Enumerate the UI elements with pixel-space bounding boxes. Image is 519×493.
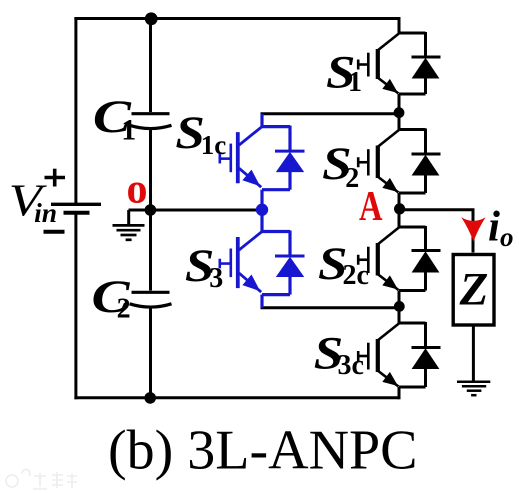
svg-text:1: 1 [121, 113, 136, 146]
wire: right leg segment below (y=193-208.8) [398, 193, 401, 209]
IGBT gate lead [358, 161, 368, 164]
wire: diode branch upper [288, 231, 291, 257]
svg-text:o: o [500, 222, 514, 252]
IGBT collector diagonal [239, 232, 262, 251]
wire: diode branch lower [424, 175, 427, 194]
wire: emitter bottom branch from diode [399, 192, 426, 195]
IGBT gate bar [367, 53, 370, 77]
diode cathode bar [412, 249, 441, 252]
wire: S1c collector to right leg (between S1 and S2) [261, 112, 400, 115]
IGBT collector diagonal [239, 127, 262, 146]
wire: diode branch upper [424, 226, 427, 251]
IGBT gate lead [358, 258, 368, 261]
svg-text:3: 3 [209, 263, 223, 294]
wire: mid leg top (rail to C1) [149, 19, 152, 113]
wire: collector vertical [260, 210, 263, 232]
svg-text:A: A [359, 184, 383, 230]
IGBT body bar [236, 237, 240, 288]
IGBT gate bar [367, 149, 370, 175]
diode cathode bar [275, 255, 305, 258]
wire: diode branch upper [424, 32, 427, 57]
wire: S3 emitter to right leg (between S2c and S3c) [261, 306, 400, 309]
wire: neutral rail o to blue leg [129, 209, 263, 212]
IGBT gate lead [220, 262, 230, 265]
IGBT emitter arrow [382, 275, 398, 289]
wire: mid leg node o to C2 [149, 210, 152, 291]
svg-text:i: i [488, 204, 500, 251]
svg-text:1c: 1c [201, 130, 227, 160]
IGBT body bar [236, 132, 240, 183]
load Z (box) [453, 255, 494, 326]
IGBT emitter diagonal [239, 168, 261, 187]
IGBT emitter diagonal [239, 273, 261, 292]
label io [488, 204, 514, 253]
transistor S1c (blue IGBT with antiparallel diode) [220, 114, 305, 210]
wire: collector top branch to diode [399, 226, 426, 229]
wire: right leg segment above (y=208.8-227) [398, 209, 401, 227]
wire: mid leg C2 to bottom rail [149, 307, 152, 399]
wire: collector vertical [260, 114, 263, 127]
wire: emitter bottom branch [262, 293, 290, 296]
wire: load Z to ground [472, 325, 475, 381]
IGBT gate bar [230, 144, 233, 173]
wire: right leg segment above (y=306.3-323) [398, 306, 401, 323]
wire: top branch to diode [262, 125, 290, 128]
diode triangle [412, 251, 440, 272]
wire: ground stub at node o [127, 210, 130, 225]
wire: diode branch lower [288, 276, 291, 295]
IGBT emitter diagonal [378, 275, 398, 291]
IGBT collector diagonal [378, 227, 399, 244]
wire: diode branch lower [424, 78, 427, 95]
IGBT gate lead [358, 63, 368, 66]
wire: bottom DC rail [74, 396, 399, 399]
IGBT gate terminal tick [219, 259, 222, 269]
label C2 [92, 271, 131, 325]
label C1 [93, 91, 136, 146]
wire: emitter bottom branch from diode [399, 93, 426, 96]
svg-text:in: in [34, 198, 57, 228]
diode triangle [276, 152, 304, 172]
node: bottom rail / mid leg junction [144, 392, 156, 404]
IGBT body bar [376, 49, 380, 79]
IGBT gate terminal tick [219, 154, 222, 164]
wire: diode branch lower [424, 368, 427, 387]
IGBT emitter arrow [382, 178, 398, 192]
IGBT body bar [376, 339, 380, 372]
IGBT collector diagonal [378, 33, 399, 50]
watermark [6, 469, 77, 489]
transistor S3c (IGBT with antiparallel diode) [358, 306, 441, 399]
transistor S3 (blue IGBT with antiparallel diode) [220, 210, 305, 308]
svg-text:3c: 3c [338, 350, 364, 381]
transistor S1 (IGBT with antiparallel diode) [358, 17, 441, 113]
IGBT body bar [376, 146, 380, 179]
svg-text:2: 2 [345, 163, 359, 194]
IGBT collector diagonal [378, 323, 399, 340]
wire: collector top branch to diode [399, 322, 426, 325]
diode triangle [412, 155, 440, 176]
wire: diode branch lower [424, 272, 427, 291]
wire: emitter bottom branch from diode [399, 386, 426, 389]
wire: output from node A to load [400, 210, 473, 253]
label S2c [318, 238, 369, 291]
svg-text:1: 1 [348, 67, 362, 98]
IGBT emitter arrow [382, 79, 398, 93]
IGBT emitter diagonal [378, 78, 398, 94]
IGBT gate terminal tick [357, 255, 360, 265]
wire: collector top branch to diode [399, 128, 426, 131]
Vin polarity plus sign [45, 169, 66, 187]
node: junction S2c/S3c [394, 301, 405, 312]
IGBT body bar [376, 243, 380, 276]
label S2 [322, 138, 359, 194]
IGBT gate bar [367, 343, 370, 370]
IGBT gate terminal tick [357, 351, 360, 361]
svg-text:2: 2 [117, 294, 131, 325]
wire: left leg lower [74, 214, 77, 399]
diode cathode bar [412, 346, 441, 349]
diode cathode bar [412, 56, 441, 59]
label S1c [175, 107, 226, 160]
svg-text:o: o [127, 167, 148, 213]
IGBT gate terminal tick [357, 157, 360, 167]
diode triangle [412, 58, 440, 79]
ground (load return) [457, 382, 490, 396]
wire: emitter vertical [260, 295, 263, 308]
wire: top DC rail [74, 17, 399, 20]
diode cathode bar [412, 153, 441, 156]
wire: top branch to diode [262, 230, 290, 233]
wire: diode branch upper [424, 322, 427, 348]
wire: mid leg C1 to node o [149, 129, 152, 210]
wire: diode branch upper [288, 126, 291, 152]
voltage source Vin (battery plates) [51, 204, 101, 213]
wire: emitter bottom branch [262, 188, 290, 191]
wire: right leg segment above (y=112.5-129.5) [398, 113, 401, 130]
IGBT emitter diagonal [378, 371, 398, 387]
wire: emitter vertical [260, 190, 263, 210]
transistor S2c (IGBT with antiparallel diode) [358, 209, 441, 306]
label S1 [326, 47, 362, 99]
wire: diode branch upper [424, 129, 427, 155]
capacitor C2 [130, 292, 172, 307]
node o (neutral point) [145, 204, 157, 216]
node A junction [394, 203, 405, 214]
wire: right leg segment above (y=17-33) [398, 17, 401, 33]
wire: emitter bottom branch from diode [399, 289, 426, 292]
capacitor C1 [130, 114, 172, 129]
node: top rail / mid leg junction [145, 12, 158, 25]
node: blue leg on neutral rail [256, 204, 268, 216]
IGBT gate lead [220, 157, 230, 160]
wire: diode branch lower [288, 171, 291, 190]
label S3c [314, 327, 364, 381]
IGBT gate bar [230, 249, 233, 278]
svg-text:Z: Z [459, 264, 489, 316]
Vin polarity minus sign [44, 230, 65, 234]
IGBT emitter arrow [382, 372, 398, 386]
label S3 [185, 240, 223, 294]
wire: left leg upper [74, 17, 77, 203]
wire: collector top branch to diode [399, 32, 426, 35]
IGBT gate lead [358, 355, 368, 358]
diode triangle [276, 257, 304, 277]
wire: right leg segment below (y=387-399.3) [398, 387, 401, 399]
IGBT emitter arrow [242, 275, 260, 292]
wire: right leg segment below (y=290.5-306.3) [398, 291, 401, 307]
svg-text:2c: 2c [343, 260, 369, 291]
IGBT collector diagonal [378, 130, 399, 147]
ground (neutral point) [113, 225, 145, 239]
diode triangle [412, 348, 440, 369]
IGBT emitter arrow [242, 170, 260, 187]
wire: right leg segment below (y=94-112.5) [398, 94, 401, 113]
diode cathode bar [275, 150, 305, 153]
svg-text:(b) 3L-ANPC: (b) 3L-ANPC [108, 420, 418, 482]
IGBT emitter diagonal [378, 177, 398, 193]
current arrow io (red) [461, 217, 485, 241]
IGBT gate terminal tick [357, 60, 360, 70]
node: junction S1/S2 [394, 107, 405, 118]
transistor S2 (IGBT with antiparallel diode) [358, 113, 441, 209]
IGBT gate bar [367, 247, 370, 273]
label Vin [9, 175, 57, 228]
